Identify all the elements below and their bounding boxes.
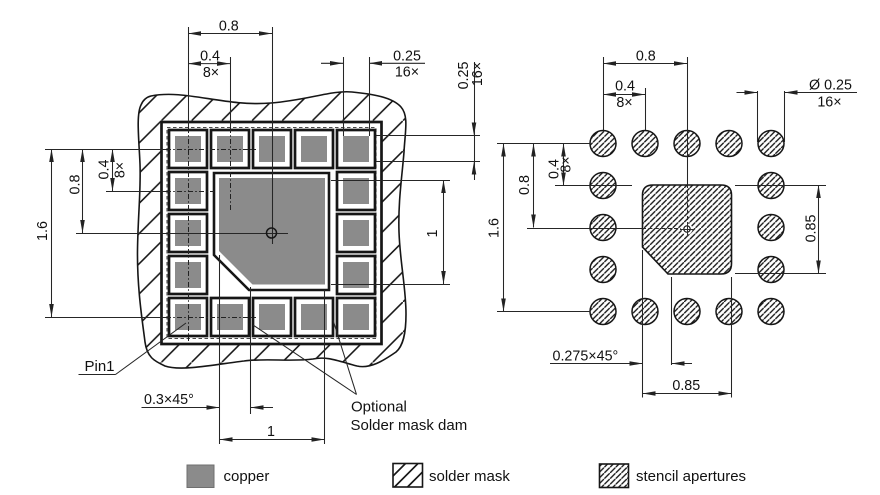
svg-text:0.85: 0.85 bbox=[804, 215, 820, 243]
svg-text:0.8: 0.8 bbox=[219, 19, 239, 35]
svg-text:16×: 16× bbox=[395, 65, 419, 81]
svg-text:8×: 8× bbox=[203, 65, 219, 81]
svg-text:stencil apertures: stencil apertures bbox=[636, 468, 746, 485]
svg-text:copper: copper bbox=[224, 468, 270, 485]
svg-text:0.4: 0.4 bbox=[97, 160, 113, 180]
svg-text:solder mask: solder mask bbox=[429, 468, 510, 485]
svg-text:8×: 8× bbox=[559, 156, 575, 172]
svg-text:8×: 8× bbox=[616, 95, 632, 111]
svg-text:1: 1 bbox=[267, 424, 275, 440]
svg-text:0.4: 0.4 bbox=[200, 49, 220, 65]
svg-text:0.4: 0.4 bbox=[615, 79, 635, 95]
svg-text:16×: 16× bbox=[470, 62, 486, 86]
svg-text:1.6: 1.6 bbox=[487, 218, 503, 238]
svg-text:Optional: Optional bbox=[351, 399, 407, 416]
svg-text:0.25: 0.25 bbox=[393, 49, 421, 65]
svg-text:0.8: 0.8 bbox=[68, 175, 84, 195]
svg-text:0.8: 0.8 bbox=[517, 175, 533, 195]
svg-text:16×: 16× bbox=[817, 95, 841, 111]
svg-text:1: 1 bbox=[425, 229, 441, 237]
svg-text:0.8: 0.8 bbox=[636, 49, 656, 65]
svg-text:Pin1: Pin1 bbox=[85, 358, 115, 375]
svg-text:Ø 0.25: Ø 0.25 bbox=[809, 78, 852, 94]
svg-text:8×: 8× bbox=[113, 162, 129, 178]
svg-text:0.3×45°: 0.3×45° bbox=[144, 392, 194, 408]
svg-text:0.275×45°: 0.275×45° bbox=[553, 349, 619, 365]
svg-text:1.6: 1.6 bbox=[35, 221, 51, 241]
svg-text:Solder mask dam: Solder mask dam bbox=[351, 417, 468, 434]
svg-text:0.85: 0.85 bbox=[672, 378, 700, 394]
